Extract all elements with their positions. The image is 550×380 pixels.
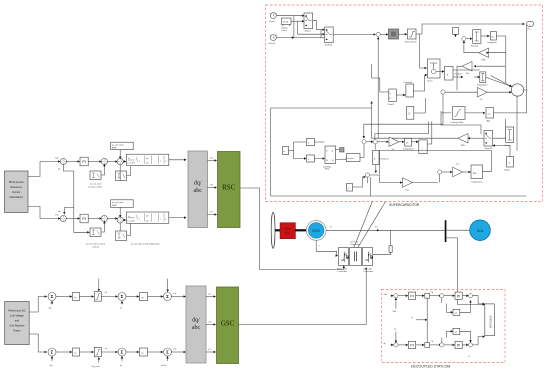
svg-text:dq/: dq/ <box>194 181 202 187</box>
svg-text:DFIG dq-axis: DFIG dq-axis <box>9 181 24 184</box>
svg-text:d- axis rotor: d- axis rotor <box>112 201 124 204</box>
svg-text:Scope1: Scope1 <box>471 45 479 47</box>
svg-text:abc: abc <box>194 188 203 194</box>
svg-text:d- axis rotor: d- axis rotor <box>90 183 102 186</box>
svg-text:C: C <box>409 113 411 116</box>
svg-text:→: → <box>153 161 155 163</box>
svg-text:1/C: 1/C <box>456 164 460 166</box>
svg-text:Power: Power <box>13 330 20 333</box>
svg-text:q- axis rotor current: q- axis rotor current <box>86 243 105 246</box>
svg-text:Integrator1: Integrator1 <box>477 84 488 87</box>
svg-text:v*br: v*br <box>210 184 214 187</box>
svg-text:Lr: Lr <box>128 215 130 218</box>
svg-text:v*ar: v*ar <box>210 157 214 160</box>
svg-text:References DC: References DC <box>8 310 25 313</box>
svg-text:q- axis rotor: q- axis rotor <box>112 144 124 147</box>
svg-text:!Q: !Q <box>332 160 335 162</box>
svg-text:iqr: iqr <box>146 157 149 160</box>
svg-text:DC Link: DC Link <box>351 241 360 243</box>
svg-text:Integrator2: Integrator2 <box>472 181 483 184</box>
svg-text:Clock1: Clock1 <box>269 43 276 45</box>
svg-text:Lr: Lr <box>128 157 130 160</box>
svg-text:SUPERCAPACITOR: SUPERCAPACITOR <box>389 203 420 207</box>
svg-text:Clock: Clock <box>269 21 275 23</box>
svg-text:Ug_max: Ug_max <box>92 366 101 368</box>
svg-text:i*qr: i*qr <box>55 157 59 160</box>
svg-text:Grid: Grid <box>477 229 484 233</box>
svg-text:Product1: Product1 <box>380 158 390 161</box>
svg-text:dq/: dq/ <box>192 318 200 324</box>
svg-text:idr: idr <box>58 210 61 213</box>
svg-text:12:34: 12:34 <box>283 22 289 24</box>
svg-text:abc: abc <box>192 325 201 331</box>
svg-text:Lr.s+Rr: Lr.s+Rr <box>128 162 135 165</box>
svg-text:Product: Product <box>455 73 463 76</box>
svg-text:Vdc*: Vdc* <box>384 294 389 296</box>
svg-text:Constant: Constant <box>404 81 413 84</box>
svg-text:iq*: iq* <box>384 343 387 345</box>
svg-text:idr: idr <box>146 215 149 218</box>
svg-text:EMF: EMF <box>112 205 117 207</box>
svg-text:Switch: Switch <box>305 30 312 33</box>
svg-text:iqr: iqr <box>58 168 61 171</box>
svg-text:Integrator: Integrator <box>488 41 498 44</box>
svg-text:Grid Reactive: Grid Reactive <box>9 325 25 328</box>
svg-text:Box: Box <box>285 231 291 235</box>
svg-text:G: G <box>508 163 510 165</box>
svg-text:and: and <box>15 320 20 323</box>
svg-text:Converter: Converter <box>338 270 348 273</box>
svg-text:Gain2: Gain2 <box>504 170 511 172</box>
svg-text:Scaler: Scaler <box>348 157 354 160</box>
svg-text:v*cr: v*cr <box>210 211 214 214</box>
svg-text:DECOUPLED STATCOM: DECOUPLED STATCOM <box>411 365 450 369</box>
svg-text:RSC: RSC <box>222 184 236 192</box>
svg-text:DFIG: DFIG <box>312 229 320 233</box>
svg-text:Chart: Chart <box>427 80 433 83</box>
svg-text:STATCOM: STATCOM <box>489 316 493 328</box>
svg-text:i*dr: i*dr <box>55 214 59 217</box>
svg-text:Switch1: Switch1 <box>325 44 333 47</box>
svg-text:Reference: Reference <box>10 186 22 189</box>
svg-text:Chart1: Chart1 <box>388 103 395 106</box>
svg-text:Calculations: Calculations <box>9 196 23 199</box>
svg-text:q- axis rotor current dynamics: q- axis rotor current dynamics <box>131 243 161 246</box>
svg-text:→: → <box>153 218 155 220</box>
svg-text:Current: Current <box>12 191 21 194</box>
svg-text:Integrator3: Integrator3 <box>403 148 414 151</box>
svg-text:Switch2: Switch2 <box>485 147 493 150</box>
svg-text:Link Voltage: Link Voltage <box>10 315 24 318</box>
svg-text:Rate Limiter: Rate Limiter <box>405 41 417 44</box>
svg-text:Lookup Table: Lookup Table <box>451 122 465 124</box>
svg-text:Q: Q <box>332 151 334 153</box>
svg-text:current control: current control <box>88 185 102 188</box>
svg-text:iqr: iqr <box>146 162 149 165</box>
svg-text:ωL.id: ωL.id <box>161 365 167 367</box>
svg-text:Clock: Clock <box>282 30 288 32</box>
svg-text:EMF: EMF <box>112 147 117 149</box>
svg-text:PI: PI <box>74 353 76 355</box>
svg-text:Converter: Converter <box>364 270 374 273</box>
svg-text:idr: idr <box>146 219 149 222</box>
svg-text:control: control <box>92 245 99 248</box>
svg-text:GSC: GSC <box>221 320 235 328</box>
svg-text:Lr.s+Rr: Lr.s+Rr <box>128 219 135 222</box>
svg-text:PI: PI <box>74 297 76 299</box>
